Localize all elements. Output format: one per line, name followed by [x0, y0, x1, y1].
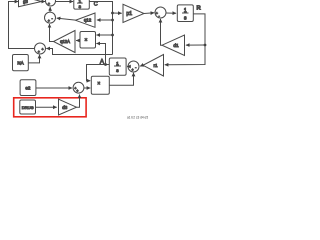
wire A up to product X1 lower input [96, 44, 105, 65]
svg-text:1: 1 [116, 61, 119, 67]
wire A output stub [106, 64, 110, 66]
wire S6 to product X2 [84, 87, 90, 89]
gain p1 [123, 4, 144, 22]
svg-text:1: 1 [184, 8, 187, 14]
product X2 [91, 76, 109, 94]
gain g3 [19, 0, 42, 7]
gain d3 [59, 99, 77, 115]
svg-text:r1: r1 [153, 63, 158, 68]
wire q12 to sum S3 [57, 18, 76, 20]
svg-text:DRUG: DRUG [22, 105, 34, 110]
sum S2 [155, 7, 166, 18]
svg-text:1: 1 [78, 0, 81, 4]
gain d1 [162, 35, 185, 56]
svg-text:×: × [97, 81, 100, 87]
wire A left and down to product X2 upper input [87, 65, 106, 81]
svg-text:+: + [48, 19, 50, 23]
sum S1 [46, 0, 56, 6]
gain q12 [76, 13, 96, 27]
junction dot [111, 34, 114, 37]
svg-text:p1: p1 [126, 11, 132, 17]
sum S6 [73, 82, 84, 93]
svg-text:e2: e2 [25, 85, 31, 90]
junction dot node A [104, 63, 107, 66]
wire R feedback down right side [165, 14, 205, 65]
integrator 1/s (A) flipped [109, 58, 126, 75]
wire S1 to integrator C [56, 1, 74, 3]
svg-text:+: + [132, 68, 134, 72]
junction dot [204, 44, 207, 47]
wire bus to gain p1 [113, 12, 122, 14]
source block DRUG [20, 100, 36, 114]
svg-text:d3: d3 [62, 105, 68, 110]
source block e2 [20, 80, 36, 96]
wire d1 to sum S2 bottom [161, 19, 163, 45]
svg-text:+: + [76, 89, 78, 93]
svg-text:+: + [38, 50, 40, 54]
wire bus to product X1 upper input [96, 34, 112, 36]
sum S4 [35, 43, 46, 54]
gain r1 [143, 55, 164, 77]
wire q12A up to sum S3 [50, 24, 54, 42]
wire d3 up to sum S6 bottom [77, 95, 80, 108]
source block NA [13, 55, 29, 71]
svg-text:g3: g3 [23, 0, 28, 4]
svg-text:d1: d1 [173, 43, 179, 49]
wire S3 to S1 bottom [49, 7, 51, 12]
highlight red box [14, 98, 86, 117]
wire bus to gain d1 [186, 44, 205, 46]
sum S3 [45, 12, 56, 23]
svg-text:R: R [197, 6, 202, 12]
svg-text:+: + [156, 11, 158, 15]
svg-text:C: C [94, 1, 98, 7]
integrator 1/s (R) [177, 5, 193, 22]
svg-text:a1 b2 c3 d4 e5: a1 b2 c3 d4 e5 [127, 116, 148, 120]
svg-text:q12: q12 [84, 18, 92, 23]
long wire from bus bottom to sum S4 [46, 49, 112, 55]
gain q12A [54, 31, 76, 53]
wire bus to gain q12 [97, 19, 113, 21]
wire S5 output to integrator A (flipped) [127, 66, 129, 68]
wire g3 to sum S1 [42, 1, 46, 3]
wire e2 to sum S6 [36, 87, 72, 89]
product X1 [80, 32, 96, 49]
svg-text:q12A: q12A [60, 39, 70, 44]
svg-text:×: × [85, 38, 88, 44]
wire r1 to sum S5 [140, 65, 143, 66]
integrator 1/s (C) [74, 0, 90, 10]
wire X1 to gain q12A [76, 40, 79, 42]
junction dot [111, 12, 114, 15]
wire S2 to integrator R [166, 12, 176, 14]
wire C to vertical bus [89, 2, 112, 55]
svg-text:NA: NA [17, 61, 23, 66]
sum S5 [128, 61, 139, 72]
wire X2 to sum S5 bottom [109, 73, 133, 86]
wire NA to sum S4 bottom [28, 55, 39, 63]
wire feedback left vertical from sum S4 to gain g3 [9, 2, 35, 49]
junction dot [111, 19, 114, 22]
svg-text:+: + [48, 2, 50, 6]
svg-text:+: + [42, 48, 44, 52]
wire p1 to sum S2 [144, 12, 154, 15]
wire DRUG to gain d3 [36, 106, 57, 108]
